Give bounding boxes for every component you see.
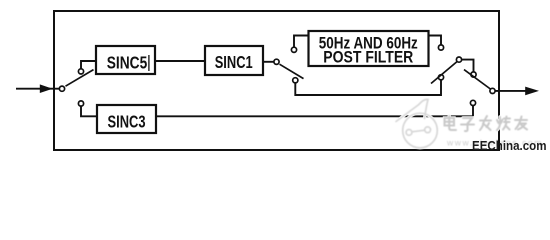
switch S2 arm — [280, 64, 304, 78]
input arrowhead — [40, 84, 53, 93]
bypass wire — [295, 80, 441, 95]
svg-text:EEChina.com: EEChina.com — [472, 139, 547, 153]
switch S2 pole — [274, 59, 279, 64]
filter block SINC5 — [96, 46, 155, 74]
filter block SINC3 — [97, 105, 156, 133]
watermark logo (white halo over ink) — [396, 99, 437, 147]
wire SINC3 to S4 — [157, 115, 473, 117]
input wire — [16, 88, 62, 90]
output wire — [495, 90, 528, 92]
text cursor artifact — [148, 55, 150, 71]
svg-text:POST FILTER: POST FILTER — [323, 48, 413, 67]
svg-text:SINC5: SINC5 — [107, 52, 148, 72]
switch S1 throw B (to SINC3) — [78, 101, 83, 106]
switch S2 throw A (post filter input) — [291, 47, 296, 52]
switch S3 throw B (bypass top) — [438, 75, 443, 80]
switch S2 throw B (bypass) — [293, 78, 298, 83]
output arrowhead — [525, 87, 539, 96]
switch S1 pole — [59, 86, 64, 91]
switch S3 arm — [431, 62, 457, 84]
switch S4 throw B (from SINC3) — [470, 100, 475, 105]
svg-text:SINC1: SINC1 — [215, 52, 253, 72]
watermark chinese text: gray pass — [445, 116, 528, 131]
wire post filter output — [430, 36, 442, 45]
wire S3 pole to S4 — [462, 60, 474, 72]
wire throw B down to SINC3 wire — [472, 106, 474, 117]
watermark chinese text dian-zi-fa-shao-you: white halo pass — [445, 116, 528, 131]
switch S1 throw A (to SINC5) — [78, 69, 83, 74]
svg-text:SINC3: SINC3 — [108, 112, 146, 132]
wire throw A to SINC5 — [81, 61, 95, 69]
wire throw B to SINC3 — [81, 106, 97, 116]
filter block SINC1 — [205, 46, 263, 75]
switch S1 arm — [66, 70, 94, 87]
switch S4 pole (output) — [490, 88, 495, 93]
wire SINC5 to SINC1 — [156, 60, 204, 62]
post filter block — [309, 31, 429, 66]
outer box — [54, 11, 499, 150]
switch S3 throw A (post filter output) — [438, 45, 443, 50]
switch S3 pole — [456, 57, 461, 62]
wire SINC1 to switch S2 — [264, 61, 274, 63]
switch S4 arm — [464, 70, 490, 89]
switch S4 throw A — [471, 72, 476, 77]
wire throw A to post filter — [294, 36, 308, 48]
